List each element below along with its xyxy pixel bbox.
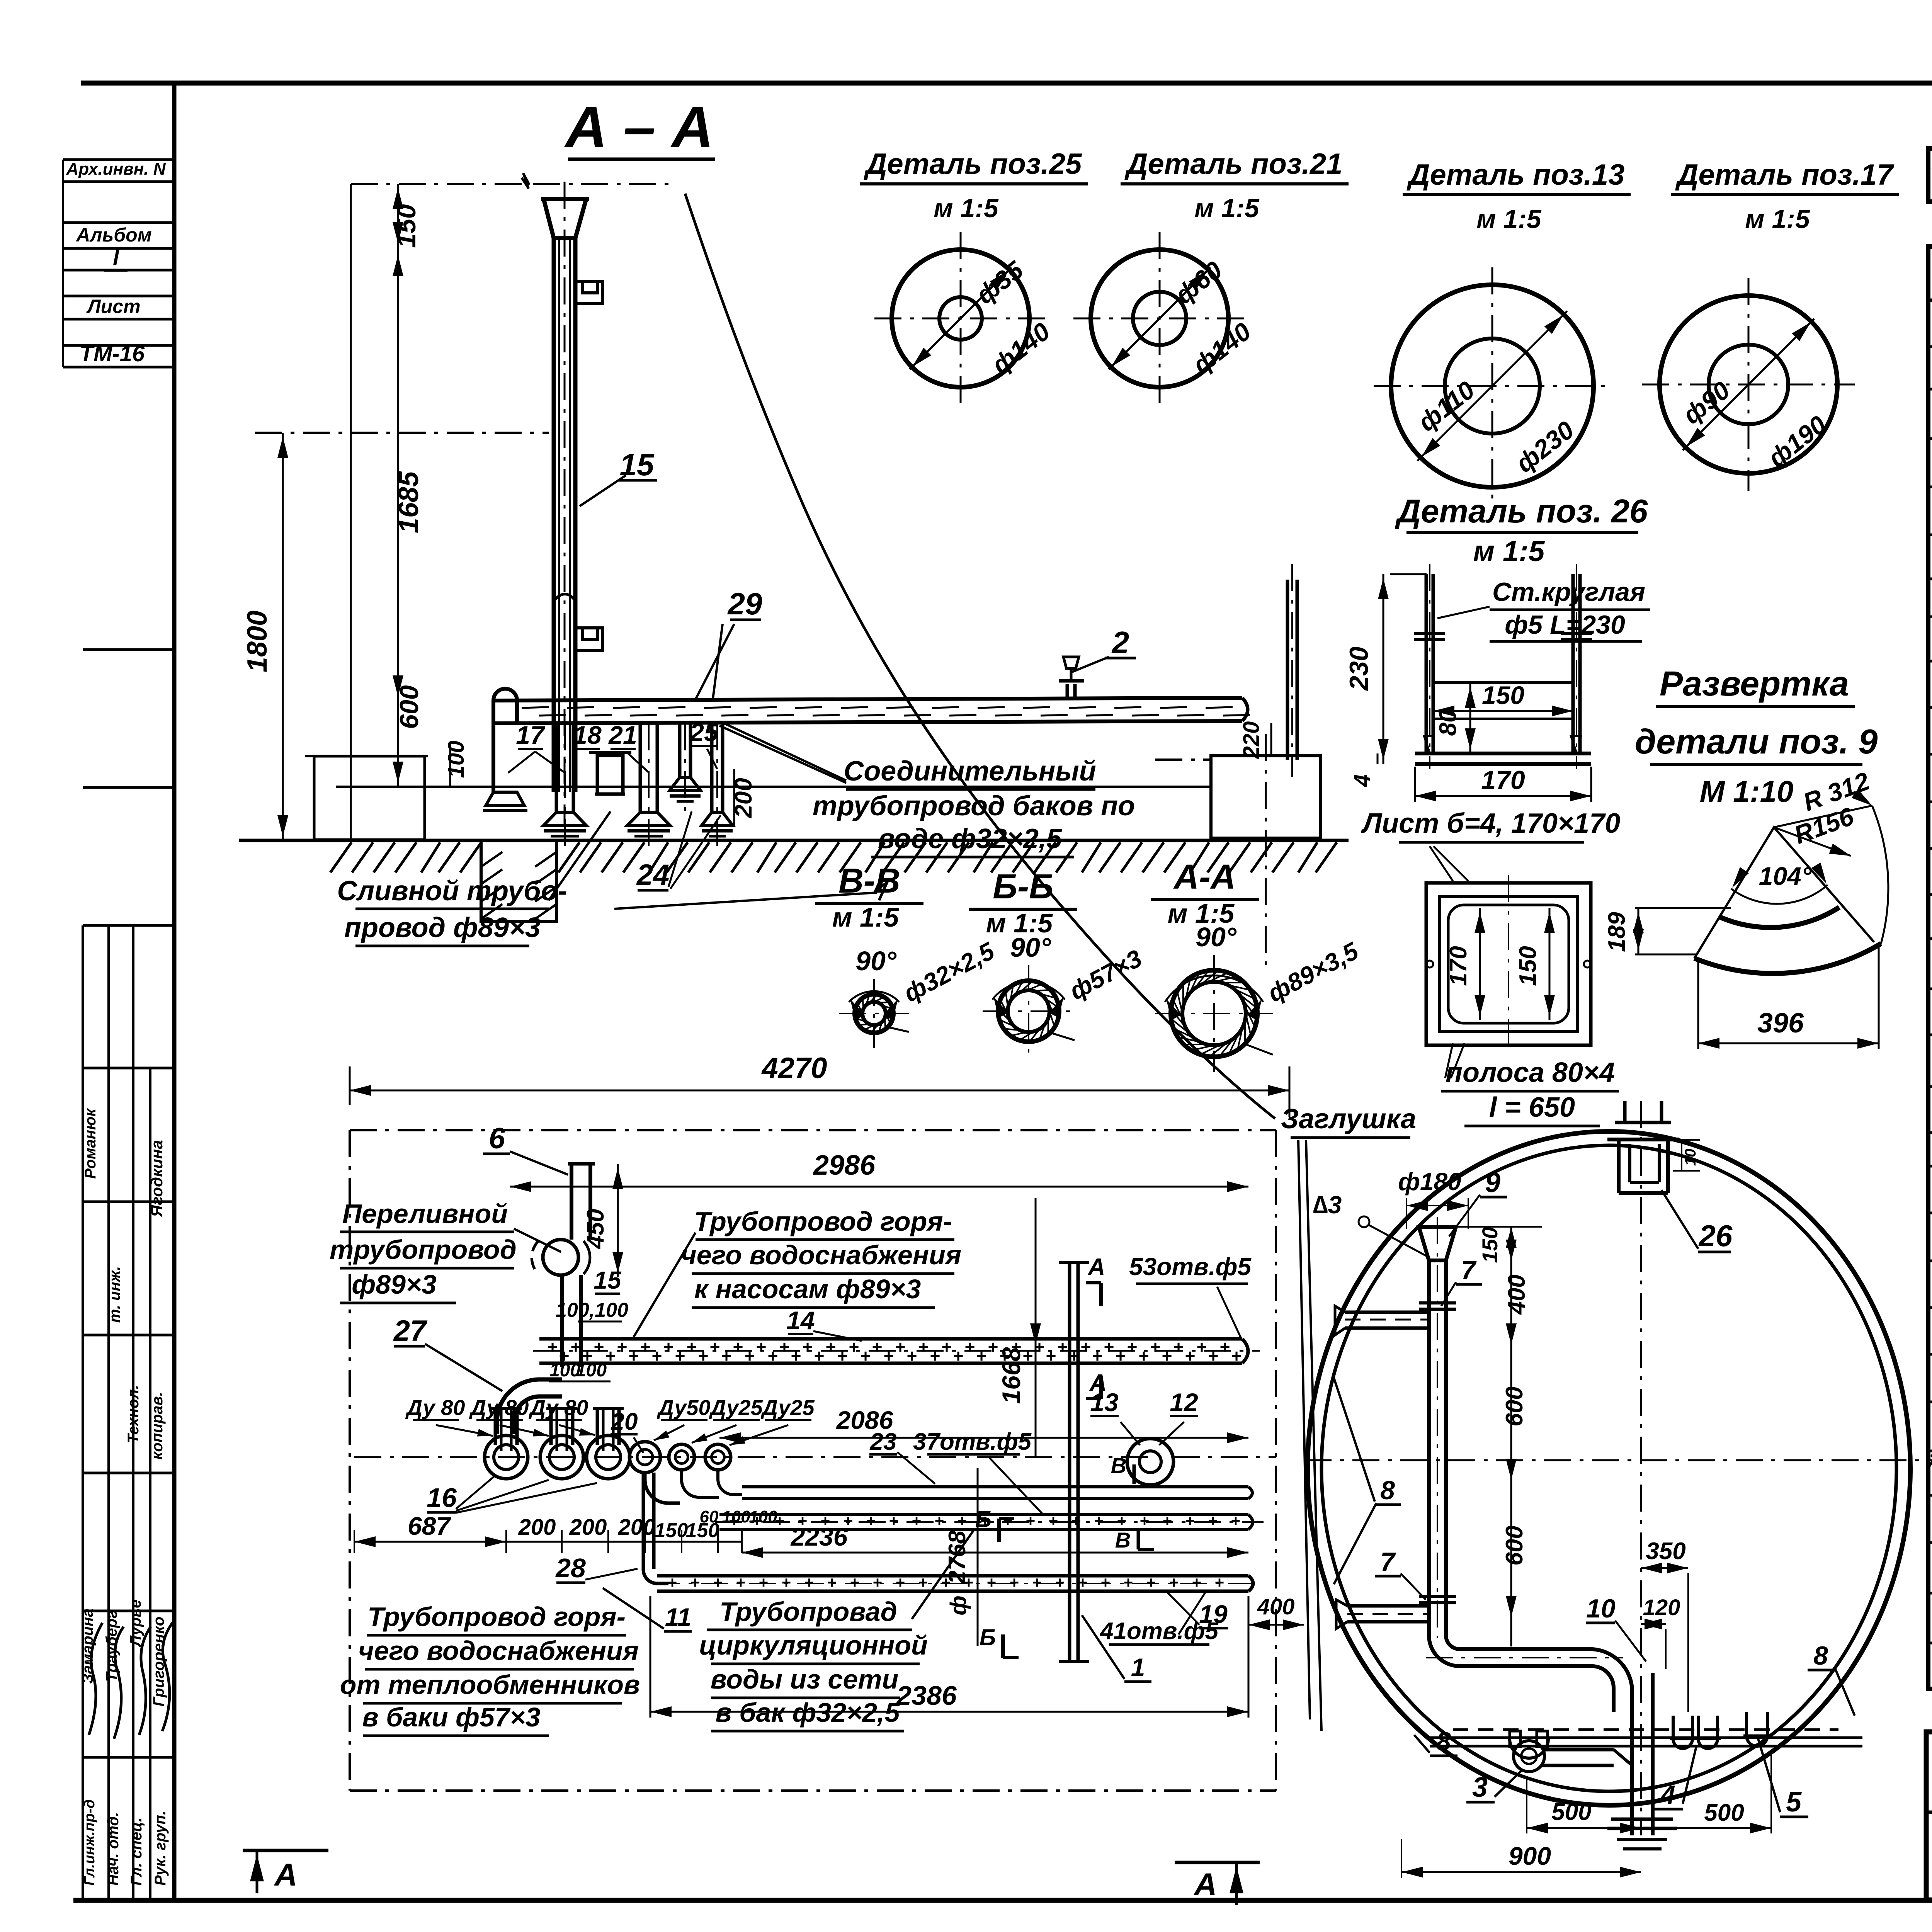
tank nozzle pipe at right (A-A) [1286, 580, 1289, 760]
svg-text:8: 8 [1436, 1727, 1451, 1756]
svg-text:170: 170 [1481, 765, 1525, 795]
elbow down to drain [1592, 1649, 1632, 1727]
svg-text:Сливной трубо-: Сливной трубо- [337, 876, 567, 906]
svg-text:4270: 4270 [761, 1052, 827, 1085]
bottom chord pipes [1453, 1728, 1838, 1731]
plan dim 4270 [350, 1090, 1289, 1092]
svg-text:90°: 90° [1010, 932, 1051, 963]
svg-text:к насосам ф89×3: к насосам ф89×3 [694, 1274, 921, 1304]
dim 220 [1270, 723, 1272, 756]
svg-text:Развертка: Развертка [1660, 665, 1849, 703]
spec table header2 row line [1928, 299, 1932, 302]
svg-text:Технол.: Технол. [125, 1385, 142, 1443]
break curve separating views [685, 194, 1275, 1119]
tank centerline vertical [1640, 1101, 1642, 1835]
svg-text:29: 29 [727, 587, 762, 621]
spec table grid outer [1928, 247, 1932, 1689]
concrete pier right [1211, 756, 1321, 838]
bracket dim 80 [1469, 683, 1471, 753]
svg-text:7: 7 [1461, 1255, 1477, 1285]
svg-text:+: + [964, 1573, 974, 1592]
svg-text:+: + [987, 1573, 997, 1592]
riser weld break mark [554, 594, 575, 601]
svg-text:воде ф32×2,5: воде ф32×2,5 [878, 823, 1062, 854]
svg-text:400: 400 [1503, 1274, 1530, 1315]
svg-text:Ду 80: Ду 80 [529, 1395, 588, 1420]
svg-text:+: + [965, 1337, 975, 1357]
svg-text:+: + [1071, 1512, 1081, 1530]
datum dash-dot level line top [351, 183, 522, 185]
svg-text:170: 170 [1445, 946, 1472, 986]
svg-text:+: + [1163, 1512, 1172, 1530]
plan boundary right dash-dot [1275, 1130, 1277, 1791]
svg-text:Романюк: Романюк [82, 1108, 99, 1179]
riser pipe 15 funnel top [544, 199, 586, 238]
dim 150 (funnel) [397, 184, 399, 247]
svg-text:∆3: ∆3 [1313, 1191, 1342, 1219]
section 90 arc В-В [849, 991, 899, 1002]
svg-text:189: 189 [1604, 912, 1630, 952]
svg-text:м 1:5: м 1:5 [1745, 204, 1810, 234]
svg-text:Трубопровод горя-: Трубопровод горя- [367, 1602, 626, 1632]
svg-text:+: + [713, 1573, 723, 1592]
level line mid [255, 432, 549, 434]
svg-text:Лист: Лист [86, 296, 140, 317]
svg-text:+: + [721, 1346, 732, 1366]
bottom pipe run to drain tee [1542, 1748, 1614, 1752]
overflow pipe flange circle [543, 1240, 578, 1275]
svg-text:Ду25: Ду25 [709, 1395, 763, 1420]
svg-text:В-В: В-В [838, 862, 900, 900]
svg-text:+: + [617, 1337, 628, 1357]
svg-text:Ду 80: Ду 80 [469, 1395, 529, 1420]
riser pipe 15 body [552, 238, 556, 792]
svg-text:+: + [745, 1346, 755, 1366]
svg-text:+: + [652, 1346, 662, 1366]
svg-text:+: + [782, 1573, 791, 1592]
svg-text:м 1:5: м 1:5 [1194, 194, 1260, 223]
svg-text:циркуляционной: циркуляционной [699, 1630, 928, 1660]
svg-text:100: 100 [722, 1507, 750, 1526]
svg-text:+: + [872, 1337, 883, 1357]
svg-text:3: 3 [1472, 1772, 1488, 1803]
svg-text:27: 27 [393, 1315, 428, 1347]
dim 1685 [397, 247, 399, 701]
svg-text:ТМ-16: ТМ-16 [80, 341, 145, 366]
svg-text:А: А [274, 1857, 297, 1893]
svg-text:1668: 1668 [997, 1347, 1026, 1404]
svg-text:15: 15 [620, 447, 655, 482]
svg-text:+: + [1101, 1573, 1111, 1592]
svg-text:+: + [1117, 1512, 1127, 1530]
svg-text:+: + [884, 1346, 894, 1366]
svg-text:14: 14 [786, 1306, 815, 1335]
svg-text:+: + [866, 1512, 876, 1530]
svg-text:ф5 L=230: ф5 L=230 [1505, 610, 1625, 639]
dim 900 [1401, 1871, 1641, 1873]
svg-text:8: 8 [1813, 1641, 1828, 1670]
svg-text:Деталь поз.21: Деталь поз.21 [1124, 148, 1343, 180]
svg-text:от теплообменников: от теплообменников [340, 1670, 640, 1700]
svg-text:450: 450 [582, 1209, 609, 1249]
svg-text:+: + [957, 1512, 967, 1530]
svg-text:+: + [918, 1573, 928, 1592]
svg-text:+: + [930, 1346, 940, 1366]
dim 350 [1641, 1567, 1688, 1569]
section 90 arc А-А [1165, 976, 1263, 1002]
svg-text:+: + [1104, 1337, 1114, 1357]
svg-text:+: + [1116, 1346, 1126, 1366]
plate square [1426, 883, 1591, 1045]
svg-text:200: 200 [730, 778, 757, 818]
plate dim 150 rotated [1549, 908, 1551, 1020]
svg-text:А: А [1193, 1867, 1217, 1902]
bracket dim 230 [1383, 574, 1384, 764]
svg-text:4: 4 [1350, 774, 1375, 787]
svg-text:м 1:5: м 1:5 [934, 194, 999, 223]
svg-text:500: 500 [1551, 1799, 1591, 1825]
svg-text:Деталь поз.25: Деталь поз.25 [864, 148, 1082, 180]
svg-text:12: 12 [1170, 1388, 1198, 1417]
svg-text:А – А: А – А [564, 94, 713, 159]
razvertka dim 396 [1698, 1043, 1879, 1044]
svg-text:м 1:5: м 1:5 [1473, 535, 1545, 567]
svg-text:10: 10 [1586, 1594, 1616, 1623]
svg-text:+: + [663, 1337, 674, 1357]
svg-text:Ду25: Ду25 [760, 1395, 815, 1420]
lower strut 7 [1347, 1604, 1429, 1608]
svg-text:24: 24 [636, 859, 670, 891]
svg-text:2386: 2386 [896, 1680, 957, 1711]
pipe 22 perforated run [719, 1513, 1248, 1516]
svg-text:+: + [837, 1346, 848, 1366]
svg-text:I: I [113, 245, 119, 269]
svg-text:26: 26 [1698, 1219, 1733, 1253]
svg-text:+: + [1169, 1573, 1179, 1592]
svg-text:+: + [1173, 1337, 1184, 1357]
svg-text:+: + [935, 1512, 944, 1530]
funnel flange at lower strut [1419, 1601, 1456, 1604]
svg-text:+: + [759, 1573, 769, 1592]
tank top manhole 26 [1617, 1139, 1621, 1193]
pipe 14 perforated run [539, 1337, 1242, 1341]
svg-text:60: 60 [700, 1507, 719, 1526]
svg-text:копирав.: копирав. [149, 1392, 166, 1460]
spec table row lines [1928, 345, 1932, 348]
bracket dim 170 [1415, 795, 1591, 797]
svg-text:+: + [1220, 1337, 1230, 1357]
svg-text:+: + [1139, 1346, 1149, 1366]
svg-text:Деталь поз. 26: Деталь поз. 26 [1395, 493, 1648, 530]
break mark bottom [876, 871, 887, 900]
svg-text:17: 17 [516, 721, 546, 749]
dim 100 [449, 742, 451, 787]
riser pipe 15 centerline [564, 182, 566, 827]
svg-text:м 1:5: м 1:5 [832, 902, 899, 932]
svg-text:+: + [1208, 1512, 1218, 1530]
detail ring Деталь поз.17 [1660, 296, 1837, 473]
svg-text:200: 200 [518, 1515, 556, 1540]
svg-text:+: + [861, 1346, 871, 1366]
svg-text:Ду 80: Ду 80 [405, 1395, 465, 1420]
svg-text:10: 10 [1682, 1149, 1699, 1166]
svg-text:5: 5 [1786, 1787, 1802, 1818]
svg-text:53отв.ф5: 53отв.ф5 [1129, 1253, 1252, 1281]
svg-text:чего водоснабжения: чего водоснабжения [681, 1240, 961, 1270]
svg-text:2: 2 [1111, 625, 1129, 660]
svg-text:25: 25 [689, 718, 719, 747]
funnel flange at strut [1419, 1308, 1456, 1311]
svg-text:+: + [1081, 1337, 1091, 1357]
svg-text:+: + [687, 1337, 697, 1357]
svg-text:13: 13 [1090, 1388, 1118, 1417]
svg-text:20: 20 [611, 1408, 638, 1435]
svg-text:+: + [1208, 1346, 1219, 1366]
svg-text:Нач. отд.: Нач. отд. [105, 1812, 122, 1886]
bracket base plate [1415, 752, 1591, 755]
svg-text:16: 16 [427, 1483, 457, 1513]
margin signature strip grid [83, 648, 174, 651]
svg-text:+: + [1162, 1346, 1172, 1366]
svg-text:Б: Б [980, 1624, 996, 1650]
svg-text:В: В [1115, 1528, 1131, 1552]
section pipe ring А-А [1171, 970, 1257, 1057]
riser clamp upper [575, 281, 602, 304]
svg-text:28: 28 [555, 1553, 586, 1583]
foundation pier below tank [481, 840, 556, 922]
svg-text:провод ф89×3: провод ф89×3 [344, 912, 541, 943]
svg-text:Лист б=4, 170×170: Лист б=4, 170×170 [1361, 808, 1621, 839]
svg-text:Ст.круглая: Ст.круглая [1492, 577, 1645, 607]
svg-text:Заглушка: Заглушка [1281, 1104, 1416, 1134]
svg-text:Гл.инж.пр-д: Гл.инж.пр-д [82, 1799, 98, 1886]
left elbow 3 with flange circle [1514, 1741, 1544, 1772]
svg-text:230: 230 [1344, 646, 1374, 691]
svg-text:ф180: ф180 [1398, 1168, 1461, 1196]
section pipe ring Б-Б [998, 981, 1059, 1042]
bracket rods [1425, 574, 1428, 753]
svg-text:37отв.ф5: 37отв.ф5 [913, 1429, 1032, 1455]
svg-text:детали поз. 9: детали поз. 9 [1635, 723, 1878, 761]
svg-text:Трубопровад: Трубопровад [719, 1597, 897, 1627]
section arrow A bottom-left [243, 1849, 328, 1852]
svg-text:+: + [873, 1573, 883, 1592]
svg-text:+: + [756, 1337, 767, 1357]
svg-text:23: 23 [870, 1429, 897, 1455]
svg-text:+: + [1185, 1346, 1196, 1366]
title block left divider [1926, 1811, 1932, 1814]
overflow riser pipe (переливной) [570, 1164, 573, 1240]
tank shell inner [1321, 1145, 1896, 1791]
svg-text:15: 15 [594, 1266, 622, 1294]
svg-text:+: + [1215, 1573, 1225, 1592]
slab top line [336, 786, 1209, 788]
svg-text:Б: Б [975, 1506, 992, 1532]
svg-text:+: + [1032, 1573, 1042, 1592]
svg-text:+: + [1197, 1337, 1207, 1357]
svg-text:Лурье: Лурье [127, 1600, 144, 1648]
dim 500 500 [1527, 1827, 1641, 1829]
svg-text:+: + [1092, 1346, 1103, 1366]
svg-text:+: + [1127, 1337, 1138, 1357]
svg-text:+: + [827, 1573, 837, 1592]
valve 2 on pipe [1066, 684, 1069, 700]
drain vertical pipe [1630, 1692, 1634, 1835]
svg-text:+: + [976, 1346, 987, 1366]
svg-text:Гл. спец.: Гл. спец. [128, 1818, 145, 1886]
svg-text:900: 900 [1509, 1842, 1551, 1870]
svg-text:1800: 1800 [242, 611, 273, 672]
plan centerline horizontal [354, 1456, 1151, 1458]
vertical plate item 1 [1068, 1262, 1071, 1662]
svg-text:600: 600 [395, 685, 424, 729]
flanges Ду50/Ду25 top view [629, 1442, 660, 1473]
svg-text:+: + [1192, 1573, 1202, 1592]
svg-text:чего водоснабжения: чего водоснабжения [358, 1636, 639, 1666]
svg-text:Соединительный: Соединительный [844, 756, 1096, 787]
svg-text:+: + [791, 1346, 801, 1366]
section pipe ring В-В [855, 994, 893, 1033]
section arrow A bottom-middle [1175, 1861, 1260, 1864]
svg-text:ф89×3: ф89×3 [352, 1269, 437, 1299]
funnel 9 (ф180) [1419, 1227, 1456, 1260]
shtutser 18 body [597, 755, 623, 794]
razvertka sector [1694, 827, 1874, 958]
funnel horizontal run centerline [1426, 1657, 1623, 1658]
sheet frame top border [81, 81, 1932, 86]
svg-text:+: + [804, 1573, 814, 1592]
detail ring Деталь поз.21 [1091, 250, 1228, 387]
section mark А upper [1099, 1283, 1103, 1306]
svg-text:+: + [895, 1337, 906, 1357]
svg-text:150: 150 [1478, 1227, 1502, 1263]
svg-text:1685: 1685 [393, 471, 424, 533]
svg-text:Трубопровод горя-: Трубопровод горя- [694, 1206, 952, 1236]
svg-text:80: 80 [1435, 709, 1461, 736]
svg-text:+: + [907, 1346, 917, 1366]
svg-text:2986: 2986 [813, 1150, 876, 1181]
svg-text:19: 19 [1199, 1600, 1228, 1628]
svg-text:l = 650: l = 650 [1489, 1092, 1575, 1123]
svg-text:104°: 104° [1759, 862, 1812, 890]
svg-text:6: 6 [489, 1122, 505, 1155]
svg-text:+: + [605, 1346, 616, 1366]
svg-text:В: В [1111, 1453, 1126, 1478]
svg-text:+: + [1231, 1512, 1241, 1530]
svg-text:11: 11 [665, 1603, 692, 1631]
svg-text:Ду50: Ду50 [656, 1395, 710, 1420]
svg-text:+: + [1026, 1512, 1036, 1530]
svg-text:396: 396 [1757, 1008, 1804, 1039]
svg-text:А-А: А-А [1173, 858, 1236, 896]
svg-text:трубопровод: трубопровод [330, 1235, 517, 1265]
plan boundary dash-dot [350, 1129, 1276, 1131]
dim 600 [397, 701, 399, 787]
svg-text:воды из сети: воды из сети [711, 1664, 899, 1694]
svg-text:+: + [548, 1337, 558, 1357]
svg-text:200: 200 [569, 1515, 607, 1540]
svg-text:150: 150 [1515, 946, 1541, 986]
svg-text:м 1:5: м 1:5 [1476, 204, 1542, 234]
dim 450 [617, 1164, 619, 1277]
svg-text:+: + [896, 1573, 905, 1592]
svg-text:600: 600 [1501, 1386, 1528, 1426]
manhole pipe above [1623, 1101, 1627, 1122]
pipe 23 run (ф32) [742, 1485, 1248, 1488]
svg-text:4: 4 [1660, 1780, 1675, 1810]
razvertka angle 104 [1731, 885, 1828, 904]
svg-text:150: 150 [655, 1519, 688, 1542]
svg-text:+: + [1150, 1337, 1161, 1357]
svg-text:Альбом: Альбом [75, 224, 151, 246]
svg-text:+: + [1010, 1573, 1019, 1592]
bracket dim 150 [1433, 710, 1573, 712]
svg-text:400: 400 [1257, 1594, 1295, 1619]
overflow pipe lower run [560, 1274, 564, 1340]
svg-text:Переливной: Переливной [342, 1199, 508, 1229]
svg-text:220: 220 [1239, 721, 1264, 759]
funnel elbow bottom [1429, 1635, 1592, 1666]
drain bottom flange [1611, 1818, 1673, 1821]
svg-text:8: 8 [1380, 1476, 1395, 1505]
svg-text:350: 350 [1646, 1538, 1685, 1565]
margin signature squiggles [89, 1623, 102, 1735]
svg-text:+: + [814, 1346, 825, 1366]
svg-text:+: + [889, 1512, 899, 1530]
sheet frame left border [172, 83, 177, 1900]
clamps 4 (у-bolts) [1673, 1716, 1692, 1748]
svg-text:Арх.инвн. N: Арх.инвн. N [66, 160, 166, 179]
svg-text:А: А [1087, 1254, 1105, 1281]
svg-text:Деталь поз.17: Деталь поз.17 [1675, 158, 1895, 191]
svg-text:+: + [1094, 1512, 1104, 1530]
section mark А lower [1099, 1376, 1103, 1399]
clamp 5 [1747, 1712, 1767, 1746]
svg-text:т. инж.: т. инж. [106, 1266, 123, 1323]
svg-text:100: 100 [749, 1507, 777, 1526]
svg-text:500: 500 [1704, 1799, 1744, 1826]
svg-text:+: + [1185, 1512, 1195, 1530]
svg-text:+: + [826, 1337, 836, 1357]
svg-text:90°: 90° [1196, 922, 1237, 952]
flanges Ду80 top view [485, 1435, 528, 1479]
svg-text:18: 18 [573, 721, 602, 749]
leader item 15 [580, 475, 626, 506]
svg-text:+: + [1231, 1346, 1242, 1366]
svg-text:Ягодкина: Ягодкина [148, 1140, 166, 1217]
svg-text:+: + [675, 1346, 685, 1366]
svg-text:+: + [1046, 1346, 1056, 1366]
pipe right end cap [1242, 698, 1248, 721]
svg-text:+: + [850, 1573, 860, 1592]
upper strut 7 [1345, 1311, 1429, 1314]
svg-text:90°: 90° [855, 946, 897, 976]
svg-text:+: + [668, 1573, 677, 1592]
dim 1800 line [282, 433, 284, 840]
sheet frame bottom border [73, 1898, 1932, 1903]
svg-text:+: + [690, 1573, 700, 1592]
svg-text:100: 100 [576, 1360, 607, 1381]
nozzle stub pipes with flanges row [555, 723, 558, 812]
svg-text:600: 600 [1501, 1526, 1528, 1565]
svg-text:150: 150 [1482, 681, 1524, 709]
title block outer [1926, 1732, 1932, 1900]
svg-text:+: + [1124, 1573, 1133, 1592]
riser clamp lower [575, 628, 602, 650]
svg-text:Деталь поз.13: Деталь поз.13 [1406, 158, 1625, 191]
dim 2386 [650, 1711, 1248, 1713]
svg-text:120: 120 [1643, 1595, 1680, 1620]
